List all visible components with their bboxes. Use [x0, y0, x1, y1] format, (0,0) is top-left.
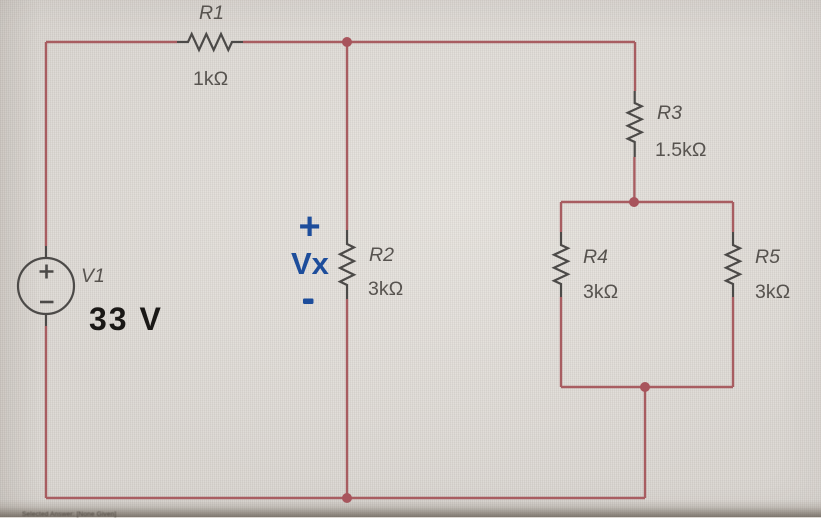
wire box right upper: [732, 202, 734, 232]
resistor R4: [554, 232, 618, 303]
source V1: [18, 246, 105, 326]
wire top rail left segment: [46, 41, 177, 43]
svg-text:R2: R2: [369, 244, 394, 266]
wire box bottom edge: [561, 386, 733, 388]
wire box left lower: [560, 297, 562, 387]
svg-text:R3: R3: [657, 102, 682, 124]
junction node top middle: [342, 37, 352, 47]
resistor R1: [177, 2, 243, 90]
wire box left upper: [560, 202, 562, 232]
svg-text:R4: R4: [583, 246, 608, 268]
wire box right lower: [732, 297, 734, 387]
wire middle branch lower: [346, 299, 348, 498]
svg-text:+: +: [299, 206, 321, 248]
svg-text:3kΩ: 3kΩ: [368, 278, 403, 300]
svg-text:V1: V1: [81, 265, 105, 287]
resistor R2: [340, 230, 403, 300]
svg-text:3kΩ: 3kΩ: [755, 281, 790, 303]
svg-text:R5: R5: [755, 246, 780, 268]
wire bottom rail: [46, 497, 645, 499]
junction node box bottom: [640, 382, 650, 392]
node Vx minus: [303, 299, 314, 305]
resistor R3: [628, 91, 707, 161]
wire left branch upper: [45, 42, 47, 246]
junction node R3 bottom: [629, 197, 639, 207]
svg-text:3kΩ: 3kΩ: [583, 281, 618, 303]
svg-text:Vx: Vx: [291, 246, 330, 281]
wire box exit: [644, 387, 646, 498]
wire middle branch upper: [346, 42, 348, 230]
svg-text:33 V: 33 V: [89, 301, 163, 337]
wire right branch upper: [634, 42, 636, 91]
wire top rail right segment: [243, 41, 635, 43]
wire box top edge: [561, 201, 733, 203]
resistor R5: [726, 232, 790, 303]
wire right branch lower: [633, 157, 635, 202]
svg-text:1.5kΩ: 1.5kΩ: [655, 139, 706, 161]
svg-text:1kΩ: 1kΩ: [193, 68, 228, 90]
junction node bottom rail: [342, 493, 352, 503]
svg-text:R1: R1: [199, 2, 224, 24]
wire left branch lower: [45, 326, 47, 498]
